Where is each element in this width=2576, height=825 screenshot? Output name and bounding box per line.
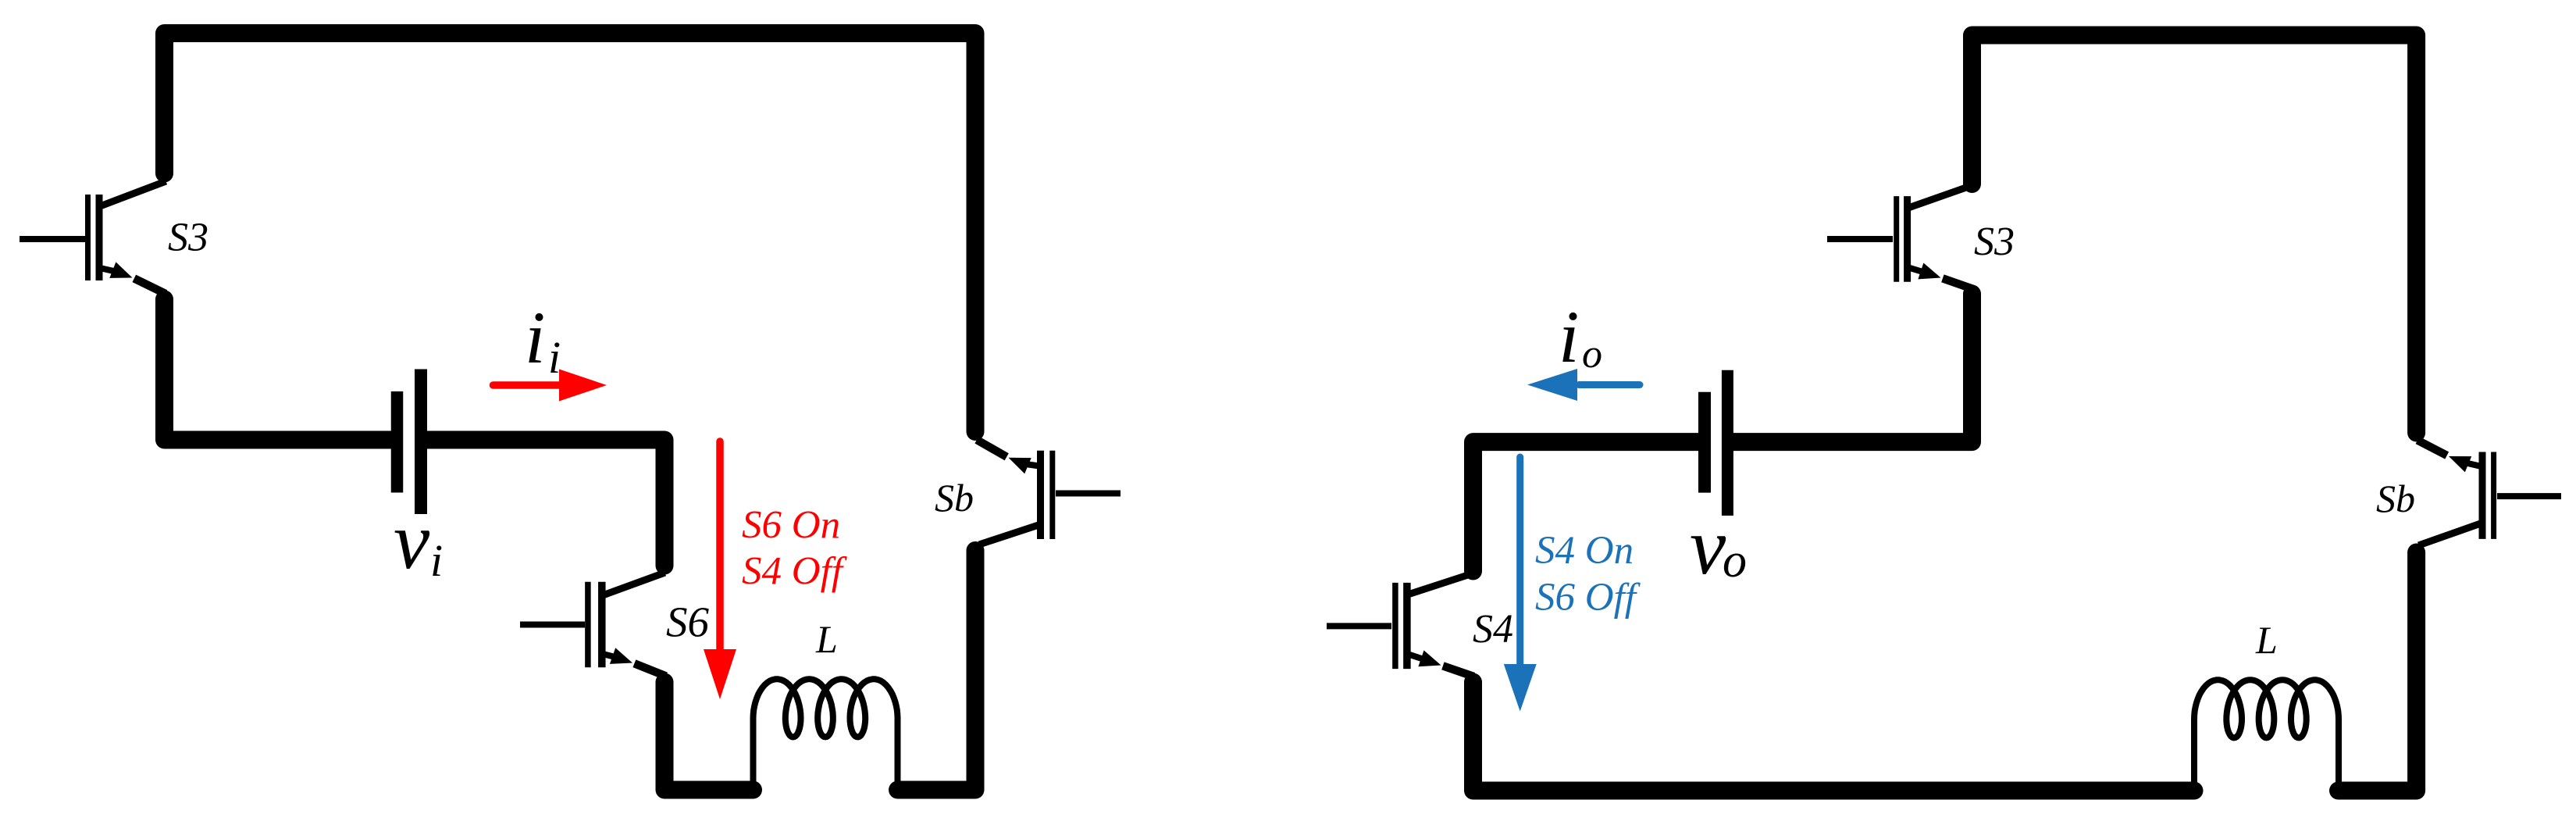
svg-text:S4 Off: S4 Off <box>742 550 848 594</box>
label S3 (left circuit) <box>168 216 208 260</box>
label vo <box>1690 502 1747 591</box>
svg-text:S3: S3 <box>1974 220 2015 264</box>
transistor S3 (left circuit) <box>20 181 166 294</box>
svg-text:i: i <box>525 296 545 379</box>
transistor S4 (right circuit) <box>1327 573 1474 677</box>
svg-text:S6 Off: S6 Off <box>1535 576 1641 620</box>
label S6 <box>666 598 710 646</box>
label Sb (left circuit) <box>935 476 974 520</box>
transistor Sb (right circuit, gate on right) <box>2417 441 2561 546</box>
svg-text:i: i <box>1559 295 1579 378</box>
svg-text:S6 On: S6 On <box>742 504 840 548</box>
label S4 <box>1473 607 1513 652</box>
svg-text:S3: S3 <box>168 216 208 260</box>
svg-text:S4: S4 <box>1473 607 1513 652</box>
battery vo <box>1705 370 1727 516</box>
inductor L (right circuit) <box>2194 680 2339 791</box>
state label "S4 Off" (red) <box>742 550 848 594</box>
svg-text:S6: S6 <box>666 598 710 646</box>
label vi <box>394 496 443 586</box>
wire: battery vo left and down to S4 collector <box>1473 442 1698 571</box>
current arrow ii (red, pointing right) <box>493 370 607 402</box>
label ii (input current) <box>525 296 561 383</box>
svg-text:L: L <box>2255 618 2278 662</box>
svg-text:o: o <box>1723 534 1747 587</box>
svg-text:v: v <box>1690 502 1726 591</box>
state arrow (red, downward) <box>704 441 736 699</box>
state label "S6 Off" (blue) <box>1535 576 1641 620</box>
label L (right circuit) <box>2255 618 2278 662</box>
svg-text:Sb: Sb <box>2376 477 2415 520</box>
transistor S3 (right circuit) <box>1827 185 1973 289</box>
svg-text:S4 On: S4 On <box>1535 529 1634 573</box>
current arrow io (blue, pointing left) <box>1527 369 1640 401</box>
svg-text:v: v <box>394 496 430 586</box>
svg-text:Sb: Sb <box>935 476 974 520</box>
wire: inductor L to Sb collector <box>898 551 976 791</box>
svg-text:o: o <box>1582 332 1602 377</box>
state label "S4 On" (blue) <box>1535 529 1634 573</box>
label io (output current) <box>1559 295 1602 378</box>
wire: right circuit top bus (S3 collector up, across, down to Sb emitter) <box>1972 35 2417 433</box>
label L (left circuit) <box>815 617 838 661</box>
wire: battery vi to S6 collector <box>427 440 664 566</box>
inductor L (left circuit) <box>754 679 898 790</box>
svg-text:i: i <box>430 535 443 586</box>
battery vi <box>397 370 422 515</box>
svg-text:L: L <box>815 617 838 661</box>
wire: S6 emitter down and right to inductor L <box>664 682 754 790</box>
wire: inductor L to Sb collector <box>2339 552 2417 791</box>
label Sb (right circuit) <box>2376 477 2415 520</box>
wire: S3 emitter down and left to battery vo <box>1733 294 1972 442</box>
wire: left circuit top bus (S3 collector up, across, down to Sb emitter) <box>165 34 976 432</box>
wire: S3 emitter down and right to battery vi <box>165 299 392 440</box>
svg-text:i: i <box>548 332 561 383</box>
state label "S6 On" (red) <box>742 504 840 548</box>
label S3 (right circuit) <box>1974 220 2015 264</box>
transistor S6 (left circuit) <box>520 573 666 677</box>
wire: S4 emitter down and right to inductor L <box>1473 682 2195 791</box>
state arrow (blue, downward) <box>1504 457 1537 712</box>
transistor Sb (left circuit, gate on right) <box>977 440 1121 545</box>
